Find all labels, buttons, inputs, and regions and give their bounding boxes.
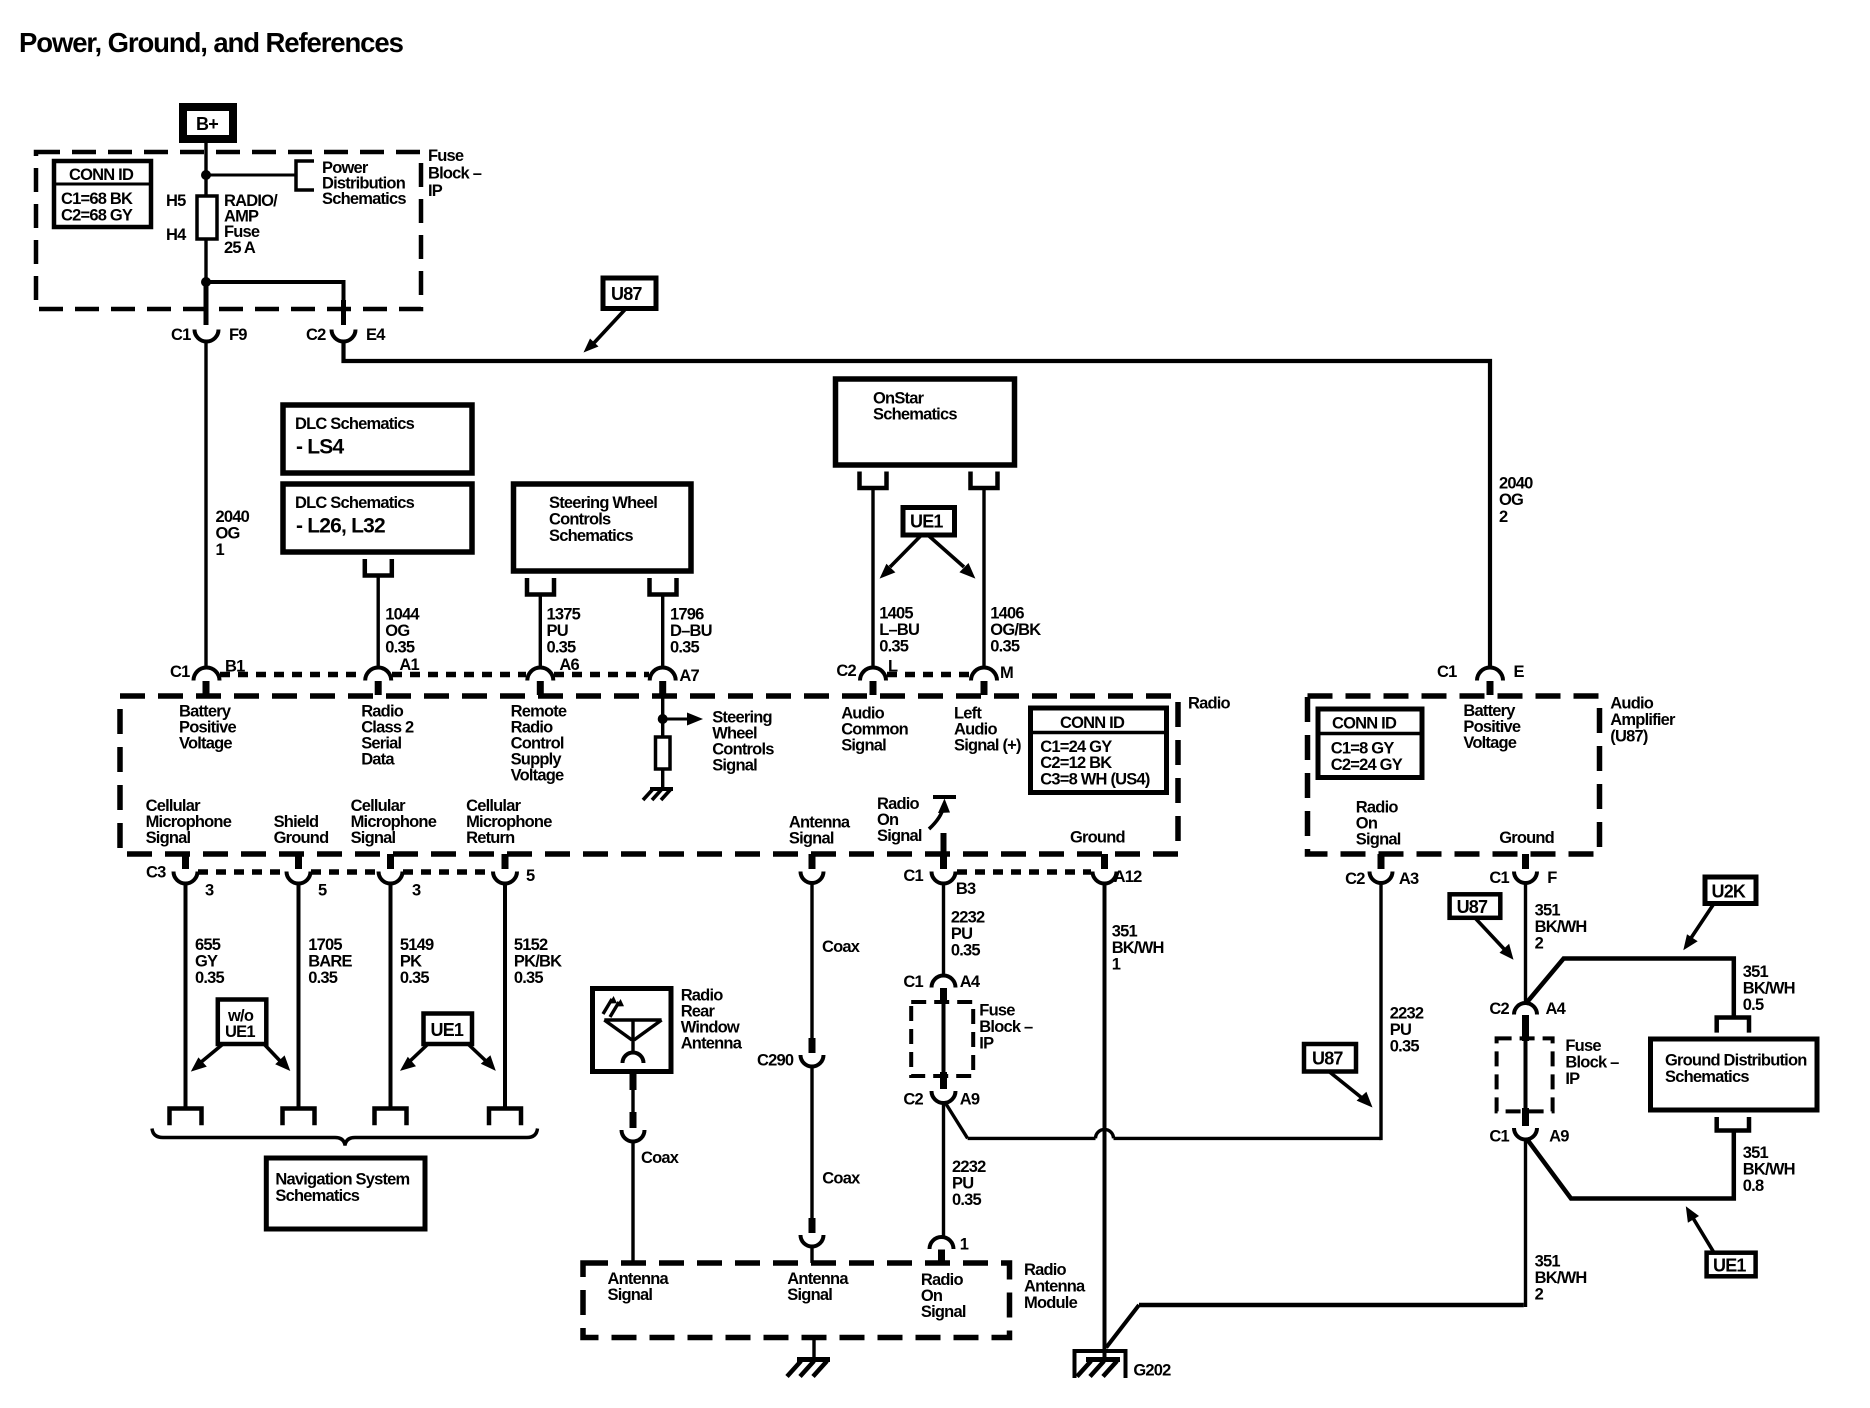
wire B3 to A4 [942,884,945,977]
arrow U2K [1683,904,1714,951]
UE1 callout (ground run) [1707,1253,1756,1277]
B+ power feed box [183,107,233,139]
svg-text:U87: U87 [611,284,642,304]
connector pin C2 L [836,657,898,695]
terminal lug 655 [170,1109,202,1126]
terminal lug 5149 [375,1109,407,1126]
arrow UE1 right [929,536,975,579]
pigtail OnStar left [860,472,887,489]
svg-text:DLC Schematics: DLC Schematics [295,415,415,433]
connector pin A12 [1093,854,1143,886]
svg-text:RemoteRadioControlSupplyVoltag: RemoteRadioControlSupplyVoltage [511,703,567,785]
wire through fuse block [942,1004,946,1074]
pigtail steering left [527,578,554,595]
svg-text:H5: H5 [166,192,186,210]
svg-text:A1: A1 [399,656,419,674]
connector antenna signal (coax out) [801,854,824,883]
pigtail steering right [650,578,677,595]
svg-text:C1: C1 [903,973,923,991]
pigtail DLC [365,559,392,576]
wire branch to ground distribution [1526,959,1734,1018]
arrow UE1 left [880,535,922,579]
svg-text:U87: U87 [1312,1049,1343,1069]
dotted link C1 B3-A12 [957,869,1091,875]
ground (antenna module) [787,1360,830,1377]
arrow w/o UE1 right [264,1044,290,1071]
svg-text:B3: B3 [956,880,976,898]
arrow w/o UE1 left [191,1044,223,1072]
wire C1 stub through box edge [204,284,209,325]
DLC Schematics L26 L32 box [283,484,472,552]
arrow U87 to A3 wire [1329,1072,1373,1108]
Ground Distribution Schematics box [1651,1039,1818,1110]
dotted link C2 L-M [887,672,970,678]
wire 1705 BARE [297,884,301,1109]
wire resistor to ground [661,769,664,789]
wire 1375 PU [539,595,542,669]
svg-text:UE1: UE1 [910,512,943,532]
wire to module antenna pin [810,1247,813,1264]
connector pin C2 A3 (amp) [1345,854,1419,888]
svg-text:1: 1 [960,1236,969,1254]
wire A9 branch to amp A3 [945,884,1382,1141]
UE1 callout box (OnStar) [903,508,955,536]
svg-text:B+: B+ [196,114,218,134]
OnStar Schematics box [836,379,1015,465]
svg-text:5: 5 [526,867,535,885]
pigtail ground distribution top [1717,1018,1749,1033]
connector pin C1 E (amp) [1437,663,1525,695]
connector pin C2 A9 (fuse block) [903,1072,980,1108]
svg-text:A6: A6 [559,656,579,674]
svg-text:G202: G202 [1133,1362,1171,1380]
connector pin A6 [527,656,579,695]
svg-text:C1: C1 [903,867,923,885]
inline coax connector (lower) [801,1218,824,1247]
svg-text:- LS4: - LS4 [296,436,344,459]
Navigation System Schematics box [266,1158,425,1229]
connector pin A1 [365,656,419,695]
CONN ID table (radio) [1031,708,1167,793]
wire A9 to ground distribution [1527,1132,1734,1199]
connector C1 F9 [171,300,344,344]
svg-text:C1: C1 [171,326,191,344]
svg-text:C290: C290 [757,1051,794,1069]
svg-text:BatteryPositiveVoltage: BatteryPositiveVoltage [1463,702,1521,752]
svg-text:3: 3 [205,881,214,899]
connector pin 3 (cellular mic signal 2) [379,854,422,899]
fuse block IP dashed box (radio-on) [911,1002,973,1076]
U87 callout (radio-on run) [1304,1044,1356,1072]
svg-text:B1: B1 [225,658,245,676]
wire C290 down [810,1067,813,1221]
U87 callout (amp ground) [1450,894,1501,918]
svg-text:Radio: Radio [1188,695,1231,713]
svg-text:A12: A12 [1114,868,1142,886]
ground G202 symbol [1077,1360,1120,1377]
svg-text:CONN ID: CONN ID [69,166,134,184]
svg-text:C2: C2 [903,1090,923,1108]
wire antenna box down [630,1072,637,1091]
svg-text:Coax: Coax [822,1170,861,1188]
svg-text:E: E [1514,663,1525,681]
connector pin M [971,664,1013,695]
CONN ID table (amp) [1318,709,1422,778]
arrow U87 to wire [584,309,627,353]
arrow U87 amp ground [1475,918,1514,960]
connector row C1 radio: dotted link B1-A1-A6-A7 [220,672,649,678]
brace navigation group [152,1129,538,1146]
svg-text:BatteryPositiveVoltage: BatteryPositiveVoltage [179,703,237,753]
connector pin 1 (module radio-on) [930,1236,969,1263]
svg-text:A7: A7 [679,667,699,685]
wire antenna signal down from radio [810,883,813,1040]
wire 5152 PK/BK [503,884,507,1109]
wire 1406 OG/BK [982,488,985,668]
svg-text:C1: C1 [1489,869,1509,887]
arrow UE1 nav left [400,1044,428,1071]
U2K callout box [1705,877,1756,904]
svg-text:U2K: U2K [1712,882,1746,902]
fuse block IP dashed box (right) [1497,1038,1553,1111]
svg-text:UE1: UE1 [431,1020,464,1040]
svg-text:C3: C3 [146,863,166,881]
module ground stub [812,1338,815,1360]
pigtail ground distribution bottom [1717,1117,1749,1131]
wire A12 to G202 [1103,884,1107,1358]
wire 1796 D-BU [661,595,664,669]
wire 2040 OG 1 (F9 down to radio B1) [204,342,207,669]
terminal lug 5152 [489,1109,521,1126]
svg-text:C1: C1 [1437,663,1457,681]
wire 2040 OG 2 (E4 across and down to amp E) [344,342,1491,669]
power distribution schematics bracket [296,161,314,190]
DLC Schematics LS4 box [283,405,472,473]
Radio Antenna Module dashed box [583,1263,1010,1338]
arrow UE1 nav right [468,1044,496,1071]
wire branch to C2 E4 [206,282,344,317]
wire coax down to module [631,1142,634,1264]
pigtail OnStar right [971,472,998,489]
connector pin C1 F (amp ground) [1489,854,1557,887]
node junction steering signal [658,714,668,724]
radio-on signal direction arrow [929,797,956,829]
connector pin C1 A4 (fuse block) [903,973,981,1004]
wire 351 BK/WH 2 (bottom run) [1106,1140,1525,1348]
inline coax connector (rear antenna) [622,1112,645,1142]
Audio Amplifier dashed box [1308,696,1600,854]
svg-text:Ground: Ground [1499,829,1554,847]
svg-text:H4: H4 [166,226,187,244]
svg-text:E4: E4 [366,326,386,344]
svg-text:C1=68 BKC2=68 GY: C1=68 BKC2=68 GY [61,190,133,225]
svg-text:A4: A4 [960,973,981,991]
svg-text:Coax: Coax [822,938,861,956]
svg-text:Ground: Ground [1070,829,1125,847]
svg-text:CONN ID: CONN ID [1332,715,1397,733]
node junction to C2 branch [201,277,211,287]
svg-text:Coax: Coax [641,1149,680,1167]
connector pin A7 [650,667,700,695]
Radio dashed box [120,696,1178,854]
wire B+ to fuse [204,143,207,196]
connector pin C1 B3 [903,854,976,898]
wire A9 down to module pin 1 [942,1103,945,1239]
svg-text:3: 3 [412,881,421,899]
U87 callout box (top) [603,278,656,309]
wire 5149 PK [389,884,393,1109]
svg-text:U87: U87 [1457,897,1488,917]
resistor (steering wheel controls) [656,737,671,769]
svg-text:- L26, L32: - L26, L32 [296,515,385,538]
svg-text:C2: C2 [1489,1000,1509,1018]
fuse RADIO/AMP 25A [197,196,217,239]
connector pin C3 3 (cellular mic signal) [146,854,214,899]
svg-text:Power, Ground, and References: Power, Ground, and References [19,27,404,58]
connector pin C1 A9 (right fuse block) [1489,1108,1569,1145]
svg-text:L: L [888,657,898,675]
connector pin 5 (shield ground) [287,854,328,899]
svg-text:F: F [1547,869,1557,887]
ground G202 bracket [1075,1351,1126,1378]
Steering Wheel Controls Schematics box [514,484,692,571]
wire 1044 OG [377,576,380,669]
wire through right fuse block [1524,1041,1528,1110]
wire F down to A4 [1524,883,1527,1004]
svg-text:C1: C1 [170,663,190,681]
svg-text:A9: A9 [1549,1127,1569,1145]
wire fuse to C1 junction [204,239,207,284]
ground (steering wheel signal) [643,789,673,800]
svg-text:C1: C1 [1489,1127,1509,1145]
connector C290 [757,1038,824,1069]
wire 655 GY [184,884,188,1109]
svg-text:C1=8 GYC2=24 GY: C1=8 GYC2=24 GY [1331,739,1403,773]
svg-text:CONN ID: CONN ID [1060,714,1125,732]
svg-text:DLC Schematics: DLC Schematics [295,494,415,512]
arrow steering wheel controls signal [663,713,703,726]
connector pin C1 B1 [170,658,245,695]
wire to power distribution bracket [206,174,296,177]
svg-text:M: M [1000,664,1013,682]
w/o UE1 callout box [218,1000,266,1045]
svg-text:5: 5 [318,881,327,899]
svg-text:A3: A3 [1399,870,1419,888]
wire 1405 L-BU [871,488,874,668]
svg-text:A4: A4 [1546,1000,1567,1018]
wire A7 into radio [661,695,664,737]
arrow UE1 ground run [1686,1206,1714,1253]
svg-text:C2: C2 [306,326,326,344]
fuse block IP dashed box [36,152,421,309]
Radio Rear Window Antenna box [593,989,672,1072]
UE1 callout box (nav) [424,1014,473,1045]
connector pin C2 A4 (right fuse block) [1489,1000,1566,1041]
connector pin 5 (cellular mic return) [493,854,535,885]
terminal lug 1705 [283,1109,315,1126]
svg-text:A9: A9 [960,1090,980,1108]
connector C2 E4 [306,326,386,344]
node junction at power distribution tap [201,170,211,180]
CONN ID table (fuse block) [54,161,151,227]
svg-text:F9: F9 [229,326,247,344]
dotted link C3 pins [198,869,493,875]
svg-text:C2: C2 [1345,870,1365,888]
svg-text:C2: C2 [836,662,856,680]
wire radio-on inside radio box [941,833,947,856]
svg-text:UE1: UE1 [1713,1255,1746,1275]
svg-text:w/oUE1: w/oUE1 [225,1007,255,1041]
